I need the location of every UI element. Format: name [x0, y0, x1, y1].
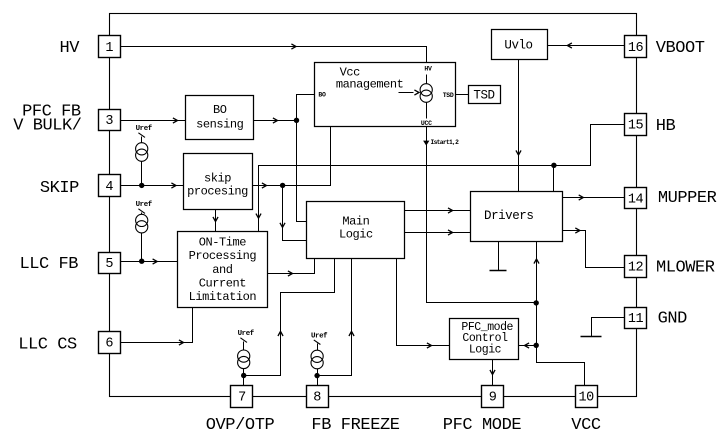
svg-text:12: 12 [628, 261, 644, 276]
wire Drivers to pin12 MLOWER [563, 231, 625, 268]
arrow on skip-to-MainLogic wire [280, 223, 285, 228]
svg-text:Uvlo: Uvlo [504, 39, 532, 53]
svg-text:Uref: Uref [311, 332, 328, 340]
arrow on ON-Time output [288, 271, 293, 276]
svg-text:VCC: VCC [571, 416, 601, 435]
wire current source to UCC [426, 103, 428, 119]
wire HB pin15 net [259, 125, 625, 232]
svg-text:TSD: TSD [473, 89, 494, 103]
wire ON-Time output to Main Logic [268, 259, 315, 274]
arrow Istart (solid) [423, 141, 429, 146]
node HB-Drivers junction [551, 163, 556, 168]
pin 9 (PFC MODE) [482, 386, 504, 408]
svg-text:15: 15 [628, 119, 644, 134]
wire HV stem to current source [426, 75, 428, 84]
arrow up into Drivers [534, 259, 539, 264]
wire VCC rail to PFC_mode right input [519, 345, 537, 347]
block PFC_mode Control Logic [450, 319, 519, 360]
svg-text:3: 3 [105, 114, 113, 129]
pin 16 (VBOOT) [625, 36, 647, 58]
arrow into pin9 [490, 370, 495, 375]
node OVP/OTP Uref junction [241, 373, 246, 378]
arrow to MLOWER [575, 228, 580, 233]
wire Uvlo to Drivers [518, 60, 520, 192]
wire pin8 node to Main Logic [318, 259, 352, 376]
block Main Logic [307, 202, 405, 259]
current source in Vcc management [420, 84, 432, 96]
arrow into PFC_mode right [525, 343, 530, 348]
svg-text:9: 9 [489, 391, 497, 406]
svg-text:Drivers: Drivers [484, 209, 533, 223]
wire pin7 stem [243, 369, 245, 386]
block TSD [469, 86, 501, 104]
wire Drivers ground stem [498, 242, 500, 271]
svg-text:Limitation: Limitation [189, 290, 257, 304]
svg-text:MLOWER: MLOWER [656, 259, 715, 278]
svg-text:sensing: sensing [196, 118, 244, 132]
svg-text:LLC FB: LLC FB [19, 255, 78, 274]
svg-text:Istart1,2: Istart1,2 [431, 139, 460, 146]
wire Main Logic to Drivers upper [405, 210, 471, 212]
wire BO sensing output [254, 120, 297, 122]
node Istart junction on VCC rail [534, 300, 539, 305]
arrow into PFC_mode left [427, 343, 432, 348]
arrow into Vcc current source [399, 92, 414, 94]
pin 3 (PFC FB / V BULK) [99, 110, 121, 131]
svg-text:GND: GND [658, 309, 688, 328]
node FB FREEZE Uref junction [314, 373, 319, 378]
block BO sensing [186, 96, 254, 140]
arrow on pin6 wire [179, 340, 184, 345]
svg-text:PFC MODE: PFC MODE [443, 416, 522, 435]
ground near pin11 [581, 336, 602, 338]
wire pin16 to Uvlo [548, 45, 625, 47]
pin 6 (LLC CS) [99, 332, 121, 354]
svg-text:SKIP: SKIP [40, 179, 79, 198]
svg-text:Current: Current [199, 276, 246, 290]
wire Main Logic to Drivers lower [405, 232, 471, 234]
pin 8 (FB FREEZE) [307, 386, 329, 408]
svg-text:8: 8 [313, 391, 321, 406]
arrow on Uvlo-Drivers wire [516, 150, 521, 155]
svg-text:procesing: procesing [187, 185, 248, 199]
svg-text:OVP/OTP: OVP/OTP [206, 416, 275, 435]
svg-text:5: 5 [105, 257, 113, 272]
wire outer border (IC boundary) [110, 14, 637, 397]
wire pin7 node to Main Logic [244, 259, 335, 376]
wire PFC_mode to pin9 [492, 360, 494, 386]
wire Istart1,2 from Vcc management to VCC rail [427, 127, 537, 303]
arrow into Drivers upper [448, 208, 453, 213]
arrow on HV wire [291, 44, 296, 49]
arrow up on pin7 branch [278, 331, 283, 336]
svg-text:Uref: Uref [136, 125, 153, 133]
wire Main Logic to PFC_mode Control Logic [397, 259, 450, 346]
svg-text:1: 1 [105, 41, 113, 56]
pin 14 (MUPPER) [625, 188, 647, 209]
svg-text:MUPPER: MUPPER [658, 189, 717, 208]
node LLC FB Uref junction [139, 259, 144, 264]
pin 5 (LLC FB) [99, 253, 121, 274]
arrow on BO output [273, 118, 278, 123]
arrow into Drivers lower [448, 230, 453, 235]
svg-text:and: and [212, 263, 233, 277]
svg-text:LLC CS: LLC CS [18, 335, 77, 354]
arrow into Uvlo [567, 43, 572, 48]
svg-text:UCC: UCC [421, 120, 432, 127]
block ON-Time Processing and Current Limitation [178, 232, 268, 308]
arrow into BO sensing [173, 118, 178, 123]
node BO output junction [294, 118, 299, 123]
svg-text:Logic: Logic [339, 228, 373, 242]
wire HV pin1 to Vcc management [121, 47, 427, 63]
pin 1 (HV) [99, 36, 121, 58]
svg-text:TSD: TSD [443, 92, 454, 99]
svg-text:FB FREEZE: FB FREEZE [311, 416, 399, 435]
svg-text:skip: skip [204, 171, 231, 185]
svg-text:7: 7 [238, 391, 246, 406]
pin 7 (OVP/OTP) [231, 386, 253, 408]
svg-text:HV: HV [59, 39, 80, 58]
wire HB node to Drivers top [553, 166, 555, 192]
wire Drivers to pin14 MUPPER [563, 197, 625, 199]
ground under Drivers [490, 270, 507, 272]
svg-text:management: management [336, 78, 404, 92]
arrow on pin5 wire [153, 259, 158, 264]
wire Vcc management to TSD [456, 94, 469, 96]
svg-text:HB: HB [656, 117, 676, 136]
wire VCC rail to Drivers bottom [537, 242, 585, 386]
svg-text:V BULK/: V BULK/ [13, 116, 82, 135]
wire BO node down to Main Logic [297, 121, 307, 222]
svg-text:VBOOT: VBOOT [656, 39, 705, 58]
svg-text:Logic: Logic [469, 343, 502, 356]
svg-text:14: 14 [628, 192, 644, 207]
block Drivers [471, 192, 563, 242]
arrow HB net into ON-Time [256, 214, 261, 219]
wire pin6 to ON-Time bottom [121, 308, 193, 343]
node SKIP Uref junction [139, 183, 144, 188]
svg-text:16: 16 [628, 41, 644, 56]
pin 12 (MLOWER) [625, 256, 647, 278]
wire skip procesing output [253, 185, 283, 187]
svg-text:BO: BO [213, 103, 227, 117]
svg-text:Processing: Processing [189, 249, 257, 263]
svg-text:4: 4 [105, 180, 113, 195]
wire Vcc management bottom to skip node [283, 127, 331, 186]
arrow into skip procesing [171, 183, 176, 188]
wire pin4 to skip procesing [121, 185, 184, 187]
pin 10 (VCC) [576, 386, 598, 408]
block Vcc management [315, 63, 456, 127]
wire skip procesing to ON-Time block [215, 210, 217, 232]
wire pin3 to BO sensing [121, 120, 186, 122]
svg-text:BO: BO [318, 91, 326, 98]
arrow into ON-Time top [213, 217, 218, 222]
pin 4 (SKIP) [99, 175, 121, 197]
arrow to MUPPER [579, 195, 584, 200]
node skip output junction [280, 183, 285, 188]
wire skip node down to Main Logic [283, 186, 307, 241]
node PFC_mode junction on VCC rail [534, 343, 539, 348]
wire pin11 GND stem [592, 318, 625, 337]
wire pin8 stem [317, 369, 319, 386]
svg-text:10: 10 [578, 391, 594, 406]
block Uvlo [492, 30, 548, 60]
block skip procesing [184, 154, 253, 210]
wire BO node up to Vcc management BO input [297, 95, 315, 121]
wire pin5 to ON-Time [121, 261, 178, 263]
svg-text:Uref: Uref [238, 330, 255, 338]
svg-text:HV: HV [424, 66, 432, 73]
svg-text:ON-Time: ON-Time [199, 236, 247, 250]
svg-text:6: 6 [105, 337, 113, 352]
pin 15 (HB) [625, 114, 647, 136]
arrow on skip output [262, 183, 267, 188]
svg-text:Uref: Uref [136, 201, 153, 209]
svg-text:Main: Main [342, 214, 369, 228]
arrow up on pin8 branch [349, 331, 354, 336]
svg-text:11: 11 [628, 312, 644, 327]
pin 11 (GND) [625, 308, 647, 329]
